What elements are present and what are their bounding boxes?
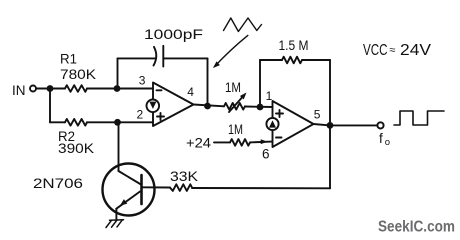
svg-text:33K: 33K bbox=[170, 168, 199, 184]
svg-text:≈: ≈ bbox=[389, 45, 395, 57]
svg-text:1M: 1M bbox=[225, 79, 241, 95]
svg-text:IN: IN bbox=[12, 82, 26, 98]
svg-text:6: 6 bbox=[262, 147, 270, 162]
svg-text:+24: +24 bbox=[186, 135, 211, 151]
svg-text:1M: 1M bbox=[228, 121, 243, 137]
svg-text:1: 1 bbox=[266, 89, 273, 103]
svg-text:o: o bbox=[385, 137, 390, 148]
svg-text:VCC: VCC bbox=[363, 42, 388, 59]
svg-text:24V: 24V bbox=[400, 42, 431, 59]
svg-text:2N706: 2N706 bbox=[33, 175, 83, 191]
svg-text:1000pF: 1000pF bbox=[144, 26, 203, 42]
svg-text:3: 3 bbox=[139, 73, 146, 87]
svg-text:R1: R1 bbox=[60, 51, 77, 67]
svg-text:1.5 M: 1.5 M bbox=[279, 37, 309, 53]
svg-text:390K: 390K bbox=[58, 140, 95, 156]
svg-text:5: 5 bbox=[314, 108, 321, 122]
svg-text:780K: 780K bbox=[60, 66, 97, 82]
svg-text:f: f bbox=[379, 131, 383, 146]
svg-text:4: 4 bbox=[187, 85, 194, 99]
svg-text:SeekIC.com: SeekIC.com bbox=[378, 219, 455, 236]
svg-text:2: 2 bbox=[137, 108, 144, 122]
